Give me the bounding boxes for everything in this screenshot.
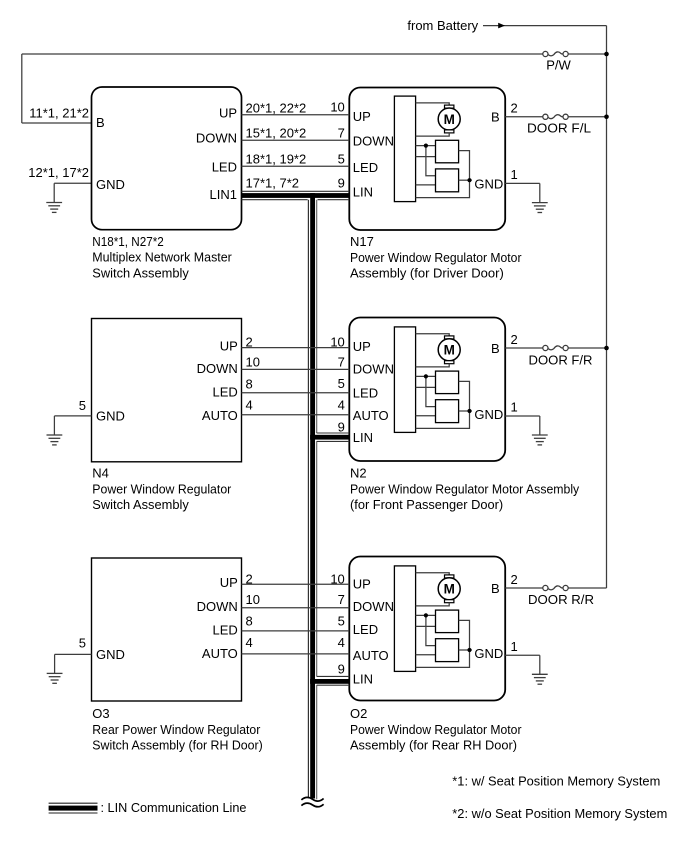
svg-text:: LIN Communication Line: : LIN Communication Line xyxy=(101,800,247,815)
svg-text:2: 2 xyxy=(511,332,518,347)
svg-text:Power Window Regulator Motor A: Power Window Regulator Motor Assembly xyxy=(350,481,580,496)
svg-text:1: 1 xyxy=(511,400,518,415)
svg-text:DOWN: DOWN xyxy=(196,131,237,146)
svg-text:12*1, 17*2: 12*1, 17*2 xyxy=(28,165,89,180)
svg-text:B: B xyxy=(491,110,500,125)
svg-text:DOWN: DOWN xyxy=(353,599,394,614)
svg-text:LED: LED xyxy=(353,622,378,637)
svg-text:AUTO: AUTO xyxy=(353,648,389,663)
svg-text:Assembly (for Driver Door): Assembly (for Driver Door) xyxy=(350,266,504,281)
svg-text:2: 2 xyxy=(511,572,518,587)
svg-text:2: 2 xyxy=(511,100,518,115)
svg-text:N18*1, N27*2: N18*1, N27*2 xyxy=(92,234,164,249)
svg-text:7: 7 xyxy=(338,592,345,607)
svg-text:1: 1 xyxy=(511,639,518,654)
svg-text:Multiplex Network Master: Multiplex Network Master xyxy=(92,250,232,265)
svg-text:DOWN: DOWN xyxy=(353,133,394,148)
svg-text:10: 10 xyxy=(330,334,344,349)
svg-text:9: 9 xyxy=(338,176,345,191)
svg-text:N2: N2 xyxy=(350,466,367,481)
svg-text:UP: UP xyxy=(353,577,371,592)
svg-text:5: 5 xyxy=(338,376,345,391)
svg-text:AUTO: AUTO xyxy=(202,408,238,423)
svg-text:LIN: LIN xyxy=(353,184,373,199)
svg-text:LIN1: LIN1 xyxy=(210,187,237,202)
svg-text:8: 8 xyxy=(246,376,253,391)
svg-text:P/W: P/W xyxy=(546,58,571,73)
svg-text:GND: GND xyxy=(96,409,125,424)
svg-text:B: B xyxy=(491,581,500,596)
svg-text:Power Window Regulator Motor: Power Window Regulator Motor xyxy=(350,722,522,737)
svg-text:O2: O2 xyxy=(350,706,367,721)
svg-text:9: 9 xyxy=(338,661,345,676)
svg-text:DOWN: DOWN xyxy=(353,361,394,376)
svg-text:Power Window Regulator Motor: Power Window Regulator Motor xyxy=(350,250,522,265)
svg-text:DOWN: DOWN xyxy=(197,361,238,376)
svg-text:*1: w/ Seat Position Memory Sy: *1: w/ Seat Position Memory System xyxy=(452,774,660,789)
svg-text:LIN: LIN xyxy=(353,430,373,445)
svg-text:LED: LED xyxy=(213,622,238,637)
svg-text:7: 7 xyxy=(338,354,345,369)
svg-text:N17: N17 xyxy=(350,234,374,249)
svg-text:10: 10 xyxy=(330,572,344,587)
svg-text:from Battery: from Battery xyxy=(407,18,478,33)
svg-text:UP: UP xyxy=(353,109,371,124)
svg-text:10: 10 xyxy=(246,354,260,369)
svg-text:AUTO: AUTO xyxy=(353,408,389,423)
svg-text:Rear Power Window Regulator: Rear Power Window Regulator xyxy=(92,722,261,737)
svg-text:Switch Assembly: Switch Assembly xyxy=(92,265,189,280)
svg-text:5: 5 xyxy=(79,398,86,413)
svg-text:UP: UP xyxy=(353,339,371,354)
svg-text:LED: LED xyxy=(353,386,378,401)
svg-text:DOOR F/L: DOOR F/L xyxy=(527,120,591,135)
svg-text:AUTO: AUTO xyxy=(202,646,238,661)
svg-text:DOOR F/R: DOOR F/R xyxy=(529,353,593,368)
svg-text:5: 5 xyxy=(79,635,86,650)
svg-text:7: 7 xyxy=(338,126,345,141)
svg-text:4: 4 xyxy=(246,635,253,650)
svg-text:UP: UP xyxy=(220,575,238,590)
svg-text:DOWN: DOWN xyxy=(197,599,238,614)
svg-text:B: B xyxy=(491,341,500,356)
svg-text:DOOR R/R: DOOR R/R xyxy=(528,592,594,607)
svg-text:1: 1 xyxy=(511,167,518,182)
svg-text:4: 4 xyxy=(338,398,345,413)
svg-text:2: 2 xyxy=(246,572,253,587)
svg-text:N4: N4 xyxy=(92,466,109,481)
svg-text:(for Front Passenger Door): (for Front Passenger Door) xyxy=(350,497,503,512)
svg-text:GND: GND xyxy=(96,177,125,192)
svg-text:10: 10 xyxy=(330,100,344,115)
svg-text:LIN: LIN xyxy=(353,671,373,686)
svg-text:2: 2 xyxy=(246,335,253,350)
svg-text:*2: w/o Seat Position Memory S: *2: w/o Seat Position Memory System xyxy=(452,806,667,821)
svg-text:LED: LED xyxy=(212,159,237,174)
svg-text:11*1, 21*2: 11*1, 21*2 xyxy=(29,106,89,121)
svg-text:O3: O3 xyxy=(92,706,109,721)
svg-text:4: 4 xyxy=(246,398,253,413)
svg-text:UP: UP xyxy=(219,105,237,120)
svg-text:Assembly (for Rear RH Door): Assembly (for Rear RH Door) xyxy=(350,738,517,753)
svg-text:Power Window Regulator: Power Window Regulator xyxy=(92,481,232,496)
svg-text:5: 5 xyxy=(338,614,345,629)
svg-text:9: 9 xyxy=(338,420,345,435)
svg-text:B: B xyxy=(96,115,105,130)
svg-text:4: 4 xyxy=(338,635,345,650)
svg-text:UP: UP xyxy=(220,339,238,354)
svg-text:GND: GND xyxy=(96,647,125,662)
svg-text:LED: LED xyxy=(213,385,238,400)
svg-text:17*1, 7*2: 17*1, 7*2 xyxy=(246,176,300,191)
svg-text:8: 8 xyxy=(246,614,253,629)
svg-text:Switch Assembly: Switch Assembly xyxy=(92,497,189,512)
svg-text:10: 10 xyxy=(246,592,260,607)
svg-text:18*1, 19*2: 18*1, 19*2 xyxy=(246,152,307,167)
svg-text:20*1, 22*2: 20*1, 22*2 xyxy=(246,100,307,115)
svg-text:15*1, 20*2: 15*1, 20*2 xyxy=(246,126,307,141)
svg-text:Switch Assembly (for RH Door): Switch Assembly (for RH Door) xyxy=(92,738,262,753)
svg-text:LED: LED xyxy=(353,160,378,175)
svg-text:5: 5 xyxy=(338,152,345,167)
